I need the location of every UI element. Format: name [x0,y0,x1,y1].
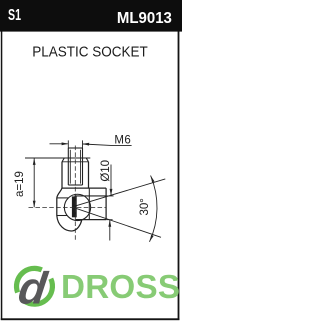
M6 arrow right [83,143,90,146]
flat face bottom inner edge [57,215,67,217]
flat face top inner edge [57,197,68,199]
housing bottom sphere arc [57,216,82,231]
socket opening top edge [75,195,107,197]
dia10 arrow down [110,189,113,196]
horizontal centerline [29,206,107,208]
thread root lines [70,150,80,184]
svg-text:PLASTIC SOCKET: PLASTIC SOCKET [32,43,148,60]
30 degree arc [150,176,158,242]
ball slot dark bar [72,196,77,217]
a=19 arrow down [33,201,36,208]
cylinder top face with a=19 extension line [25,157,90,159]
left flat face [56,198,58,216]
neck curve to left face [57,188,62,198]
M6 left arrow tail [50,143,68,145]
M6 extension lines [68,140,82,148]
svg-text:S1: S1 [8,7,21,24]
cylinder chamfer bottom edge [62,161,89,163]
svg-text:Ø10: Ø10 [100,160,112,182]
arc arrow lower [150,235,154,242]
svg-text:M6: M6 [114,135,131,147]
header bar [0,0,182,32]
logo ring arc upper-left [17,268,42,292]
M6 leader and underline [83,144,132,146]
svg-text:DROSS: DROSS [61,269,180,306]
threaded hole bottom edge [68,184,82,186]
logo ring arc lower-right [24,279,52,304]
dia10 lower leader [109,220,111,241]
vertical centerline [74,146,76,242]
body bottom / opening bottom edge [75,219,106,221]
cone lower line [76,208,161,237]
a=19 dimension line [33,158,35,207]
a=19 arrow up [33,158,36,165]
flange inner vertical edge [88,188,90,220]
cone upper line [76,179,165,206]
dia10 upper leader [110,165,112,196]
cylinder sides [62,162,89,188]
dia10 arrow up [108,220,111,227]
dia10 extension lines [106,196,113,220]
body top edge [62,187,106,189]
ball circle [64,194,90,220]
threaded hole top edge [68,147,82,149]
svg-text:ML9013: ML9013 [117,10,172,27]
M6 arrow left [62,142,69,145]
cylinder top chamfers [62,158,89,162]
arc arrow upper [151,176,155,183]
threaded hole M6 outer walls [68,148,82,185]
svg-text:30°: 30° [139,198,151,215]
svg-text:a=19: a=19 [14,171,26,197]
body right edge [105,188,107,220]
